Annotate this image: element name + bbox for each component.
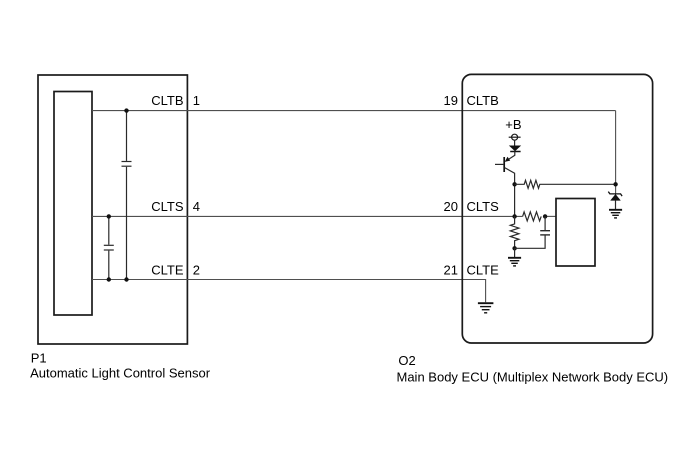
wire +B circle to diode D1 [514,140,516,146]
node dot CLTB/C1 [124,108,128,112]
transistor Q1 base bar [503,157,505,172]
wire ZD1 to ground [615,200,617,209]
node dot CLTS/C2 [107,214,111,218]
svg-text:1: 1 [193,93,200,108]
capacitor C1 (between CLTB and CLTE inside sensor) [122,111,132,280]
sensor element inner rectangle [54,92,92,316]
node dot CLTE/C1 [124,277,128,281]
node dot R3/C3 bottom [512,246,516,250]
wire CLTB vertical drop to zener [615,111,617,194]
wire CLTE (pin 2 to ECU pin 21, down to ground) [92,280,486,303]
svg-text:Automatic Light Control Sensor: Automatic Light Control Sensor [30,366,211,381]
svg-text:CLTE: CLTE [467,263,500,278]
node dot R2/C3 [543,214,547,218]
svg-text:4: 4 [193,199,200,214]
emitter arrowhead [505,157,511,162]
node dot CLTS/collector junction [512,214,516,218]
svg-text:CLTE: CLTE [151,263,184,278]
node dot CLTE/C2 [107,277,111,281]
ECU O2 rounded box [462,74,652,343]
svg-text:CLTB: CLTB [467,93,499,108]
svg-text:2: 2 [193,263,200,278]
ground G2 (below R3) [508,258,521,266]
transistor Q1 collector lead [505,168,515,217]
capacitor C3 (between R2 output and ground rail) [515,216,550,248]
diode D1 (cathode down) [510,146,521,151]
connector P1 outer box [38,75,187,344]
svg-text:+B: +B [505,117,521,132]
resistor R1 (horizontal, collector to CLTB drop) [515,180,616,188]
svg-text:P1: P1 [31,350,47,365]
wire D1 to transistor emitter with arrowhead (PNP emitter) [507,152,514,161]
ground G1 (below CLTE) [478,303,494,313]
capacitor C2 (between CLTS and CLTE inside sensor) [104,216,114,279]
zener diode ZD1 (cathode bar with bent ends) [608,192,622,197]
ground G3 (below zener) [609,210,622,218]
svg-text:21: 21 [444,263,458,278]
svg-text:CLTS: CLTS [151,199,184,214]
svg-text:20: 20 [444,199,458,214]
wire CLTS (pin 4 to ECU pin 20) [92,215,523,217]
svg-text:CLTB: CLTB [151,93,183,108]
svg-text:Main Body ECU (Multiplex Netwo: Main Body ECU (Multiplex Network Body EC… [397,369,669,384]
power terminal circle +B [509,134,521,140]
wire R3 bottom to ground [514,248,516,257]
resistor R3 (vertical below CLTS junction) [510,216,519,248]
IC block U1 [556,199,595,267]
svg-text:19: 19 [444,93,458,108]
node dot CLTB drop/R1 [613,182,617,186]
wire CLTS resistor to IC [544,215,556,217]
resistor R2 (horizontal on CLTS line) [523,212,542,221]
wire CLTB (pin 1 to ECU pin 19, ends at vertical drop x=615.6) [92,110,616,112]
zener diode ZD1 triangle (anode, pointing up) [611,194,621,200]
svg-text:O2: O2 [398,353,415,368]
node dot collector/R1 [512,182,516,186]
transistor Q1 base lead [495,163,503,165]
svg-text:CLTS: CLTS [467,199,500,214]
